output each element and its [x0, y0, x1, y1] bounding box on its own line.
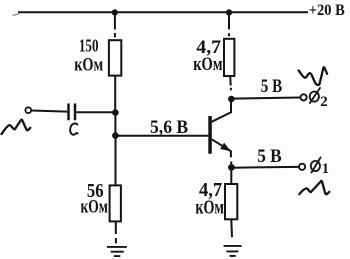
wire: rail to R1 top: [114, 12, 116, 37]
svg-text:1: 1: [322, 161, 329, 177]
node E emitter junction dot: [228, 164, 235, 171]
ground: left: [107, 247, 127, 256]
transistor Q1 base bar: [208, 116, 212, 154]
svg-text:150: 150: [79, 36, 99, 56]
node C collector junction dot: [228, 96, 235, 103]
waveform sketch: input signal: [2, 120, 31, 134]
terminal: input: [25, 107, 31, 113]
label: phi2 glyph: [309, 87, 320, 103]
label: phi1 glyph: [311, 157, 321, 173]
node B junction dot: [112, 132, 119, 139]
resistor R2 56 kOhm body: [110, 185, 121, 221]
node A junction dot: [112, 109, 119, 116]
terminal: phi2 output: [301, 94, 307, 100]
waveform sketch: phi2 output (inverted): [299, 67, 328, 85]
resistor R4 4.7 kOhm lower body: [225, 184, 237, 219]
wire: rail to R3 top: [228, 12, 230, 36]
resistor R1 150 kOhm body: [109, 40, 121, 75]
wire: node B to R2 top: [115, 136, 117, 186]
svg-text:+20 В: +20 В: [309, 2, 345, 19]
svg-text:кОм: кОм: [74, 54, 103, 75]
label: capacitor designator C: [70, 123, 77, 134]
wire: input terminal to capacitor: [31, 111, 67, 112]
svg-text:2: 2: [320, 94, 328, 110]
ground: right: [224, 246, 242, 256]
transistor Q1 emitter arrowhead: [220, 143, 231, 152]
wire: faint lead-in tick at rail start: [13, 14, 20, 16]
wire: node E to R4 top: [230, 167, 232, 184]
transistor Q1 emitter lead: [212, 139, 231, 164]
svg-text:кОм: кОм: [81, 197, 108, 218]
wire: capacitor to node A: [76, 111, 113, 113]
node: rail junction right: [226, 9, 232, 15]
wire: node A to node B: [114, 113, 116, 136]
wire: base wire node B to Q1: [115, 135, 208, 137]
wire: node C to output phi2: [231, 98, 300, 99]
wire: R2 bottom to ground: [115, 221, 117, 243]
node: rail junction left: [112, 9, 118, 15]
terminal: phi1 output: [299, 164, 305, 170]
wire: +20V supply rail: [18, 11, 308, 13]
wire: R3 bottom to node C: [229, 76, 232, 90]
svg-text:5 В: 5 В: [261, 76, 283, 97]
capacitor C plates: [69, 104, 76, 121]
wire: R1 bottom to node A: [114, 76, 116, 110]
svg-text:кОм: кОм: [193, 54, 222, 75]
transistor Q1 collector lead: [212, 99, 231, 122]
svg-text:кОм: кОм: [195, 198, 224, 219]
waveform sketch: phi1 output: [299, 181, 329, 194]
wire: R4 bottom to ground: [230, 219, 233, 237]
svg-text:5 В: 5 В: [257, 146, 282, 167]
resistor R3 4.7 kOhm upper body: [224, 39, 234, 76]
wire: node E to output phi1: [231, 166, 299, 169]
svg-text:5,6 В: 5,6 В: [150, 117, 188, 138]
